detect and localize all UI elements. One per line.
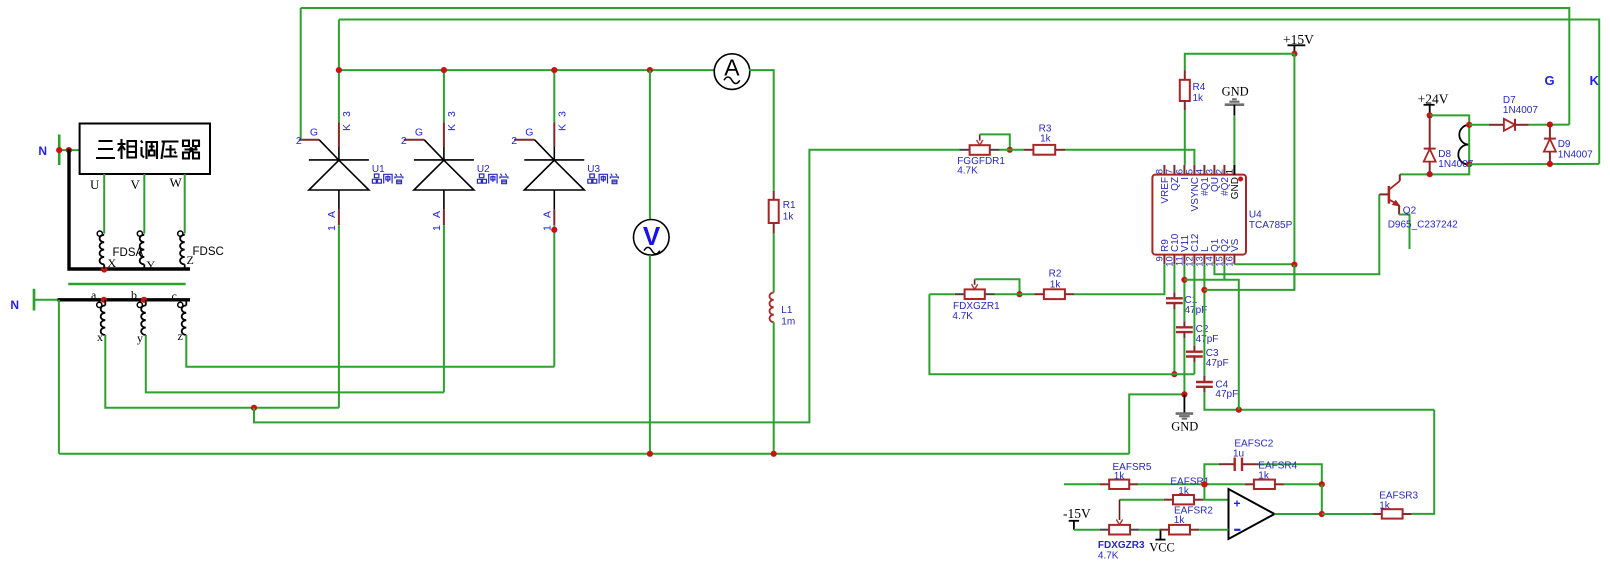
svg-text:1: 1 [1224,169,1235,174]
wire U4 pin 9 to R2 [1074,264,1164,294]
wire neutral bus up to GND junction [1129,394,1184,453]
wire GND to U4 pin 1 [1233,115,1235,164]
secondary winding c-z [178,302,183,307]
wire R1 to L1 [773,234,775,293]
potentiometer FDXGZR1 4.7K [955,293,965,295]
svg-text:U4: U4 [1249,210,1262,221]
wire V phase from box [143,174,145,234]
junction D8 anode [1427,171,1433,177]
transformer FDSA primary winding [97,231,102,236]
svg-text:U3: U3 [587,164,600,175]
svg-text:VCC: VCC [1149,541,1175,555]
thyristor U2 晶闸管 [443,70,445,122]
wire K return line [1469,163,1599,165]
wire transformer bottom to Q2 collector [1400,164,1469,174]
junction FDXGZR1 wiper [1016,291,1022,297]
junction D9 cathode [1547,122,1553,128]
wire +15V to R4 [1185,54,1295,70]
junction V meter tap [647,67,653,73]
wire loop FDXGZR1 to C1 C3 [929,294,1194,374]
wire bottom neutral bus [59,453,1129,455]
junction tap to FGGFDR1 [251,405,257,411]
svg-text:1k: 1k [1193,93,1205,104]
svg-text:U2: U2 [477,164,490,175]
U4 top pin 1 GND [1233,165,1235,175]
wire U4 pin 12 to C3 [1193,264,1195,345]
wire U4 pin 14 to Q2 base [1214,194,1379,274]
junction a winding [101,297,107,303]
U4 top pin 2 #Q2 [1223,165,1225,175]
svg-text:4.7K: 4.7K [952,311,973,322]
junction summing node overlay [1201,481,1207,487]
svg-text:R4: R4 [1193,82,1206,93]
svg-text:1N4007: 1N4007 [1558,149,1593,160]
wire feedback loop down to EAFSR3 [1412,410,1435,514]
svg-text:1k: 1k [1040,134,1052,145]
node N (secondary neutral terminal) [33,289,36,311]
junction X winding to bus [101,266,107,272]
svg-text:GND: GND [1171,420,1198,434]
transformer FDSB primary winding [137,231,142,236]
wire U phase from box [103,174,105,234]
svg-text:G: G [525,127,533,139]
voltmeter V [649,70,651,220]
svg-text:47pF: 47pF [1206,358,1229,369]
junction transformer bottom [1466,161,1472,167]
svg-text:K: K [556,124,568,131]
svg-text:3: 3 [341,111,353,117]
wire U4 pin 11 to C2 and GND [1183,264,1185,321]
svg-text:G: G [1545,73,1555,88]
svg-text:1k: 1k [1174,515,1186,526]
svg-text:1: 1 [326,225,338,231]
junction pin 11 node [1181,277,1187,283]
U4 bottom pin 10 C10 [1173,255,1175,265]
wire FDXGZR1 left [929,293,954,295]
svg-text:GND: GND [1230,177,1241,199]
wire EAFSR5 input [1064,483,1100,485]
U4 top pin 6 I [1183,165,1185,175]
junction EAFSR4 output [1319,481,1325,487]
svg-text:V: V [131,177,141,192]
svg-text:a: a [91,288,97,302]
svg-text:z: z [178,329,183,343]
wire FGGFDR1 to R3 [1000,149,1024,151]
wire G line from U1 gate to right side [301,8,1570,125]
svg-text:K: K [1590,73,1600,88]
junction N wire to black bus [66,147,72,153]
wire U4 pin 15 to node [1223,264,1225,280]
svg-text:47pF: 47pF [1215,389,1238,400]
svg-text:N: N [38,144,47,158]
U4 bottom pin 9 R9 [1163,255,1165,265]
svg-text:1k: 1k [1379,501,1391,512]
wire FGGFDR1 wiper loop [980,134,1010,149]
node N (primary neutral terminal) [58,135,61,166]
secondary winding b-y [137,302,142,307]
svg-text:TCA785P: TCA785P [1249,220,1293,231]
junction VS +15V [1291,262,1297,268]
svg-text:A: A [326,211,338,218]
svg-text:1k: 1k [1050,280,1062,291]
svg-text:FDSA: FDSA [113,247,144,259]
svg-text:Q2: Q2 [1403,206,1417,217]
resistor EAFSR2 1k [1160,529,1169,531]
transformer FDSC primary winding [178,231,183,236]
diode D7 1N4007 [1489,124,1504,126]
wire summing node to EAFSR4 [1204,483,1244,485]
svg-text:2: 2 [511,135,517,147]
svg-text:+: + [1234,497,1241,511]
wire EAFSR2 to op-amp - [1199,529,1228,531]
resistor R2 1k [1035,293,1044,295]
U4 top pin 3 QU [1213,165,1215,175]
svg-text:G: G [415,127,423,139]
transformer core bar [68,283,185,286]
wire +15V rail corner to pin 13 node [1204,265,1294,290]
junction pin 13 node [1201,287,1207,293]
U4 bottom pin 12 C12 [1193,255,1195,265]
svg-text:1N4007: 1N4007 [1503,105,1538,116]
svg-text:y: y [137,331,143,345]
svg-text:K: K [446,124,458,131]
U4 bottom pin 11 V11 [1183,255,1185,265]
potentiometer FDXGZR3 4.7K [1100,529,1109,531]
junction D9 anode [1547,161,1553,167]
resistor EAFSR3 1k [1373,513,1382,515]
U4 top pin 8 VREF [1163,165,1165,175]
wire +24V to transformer [1430,115,1470,124]
svg-text:A: A [431,211,443,218]
wire C4 bottom to output loop [1204,393,1434,410]
svg-text:Y: Y [147,258,156,272]
wire FDXGZR3 wiper to EAFSR1 [1120,499,1164,501]
wire EAFSR4 to output node [1284,483,1322,485]
wire +15V rail down to VS [1293,54,1295,290]
resistor R3 1k [1024,149,1034,151]
U4 bottom pin 13 L [1203,255,1205,265]
U4 bottom pin 16 VS [1233,255,1235,265]
U4 bottom pin 15 Q2 [1223,255,1225,265]
svg-text:4.7K: 4.7K [957,166,978,177]
three-phase regulator box 三相调压器 [80,124,210,175]
op-amp U? [1229,489,1275,539]
svg-text:1k: 1k [1114,471,1126,482]
wire U4 pin 10 to C1 [1173,264,1175,292]
wire winding y to thyristor U2 anode [146,335,444,392]
wire summing node to op-amp + [1203,484,1205,499]
junction U1 K [336,67,342,73]
capacitor C4 47pF [1203,376,1205,382]
wire output to EAFSR3 [1322,513,1373,515]
wire W phase from box [184,174,186,234]
ground GND bottom [1183,394,1185,412]
wire FDXGZR3 to EAFSR2 [1139,529,1160,531]
resistor R1 [773,191,775,200]
U4 top pin 5 VSYNC [1193,165,1195,175]
wire R3 to U4 pin 5 VSYNC [1065,150,1194,165]
junction L1 neutral [771,451,777,457]
black bus wire across winding tops a b c [58,298,191,301]
wire K line top to right side [339,20,1599,164]
junction voltmeter neutral [647,451,653,457]
wire C1 to loop node [1173,309,1175,374]
wire secondary neutral down to bottom bus [58,300,60,454]
svg-text:VS: VS [1230,238,1241,252]
wire winding x to thyristor U1 anode [105,335,339,408]
svg-text:A: A [541,211,553,218]
svg-text:1k: 1k [783,212,795,223]
svg-text:2: 2 [296,135,302,147]
svg-text:X: X [108,256,117,270]
thyristor U1 晶闸管 [338,70,340,122]
wire C2 to GND junction [1183,338,1185,394]
junction GND node [1181,391,1187,397]
junction U3 anode [551,227,557,233]
secondary winding a-x [97,302,102,307]
wire ammeter to R1 branch [749,70,774,191]
svg-text:x: x [97,330,103,344]
pin 1 marker dot U4 [1238,177,1243,182]
svg-text:U: U [90,177,100,192]
svg-text:R1: R1 [783,200,796,211]
U4 bottom pin 14 Q1 [1213,255,1215,265]
wire U4 pin 13 to C4 [1203,264,1205,376]
svg-text:-15V: -15V [1063,506,1091,521]
svg-text:1u: 1u [1233,449,1244,460]
inductor L1 [769,293,773,323]
svg-text:FDSC: FDSC [193,246,224,258]
svg-text:3: 3 [556,111,568,117]
wire L1 to neutral bus [773,322,775,454]
wire gate of U1 to G line [300,8,302,140]
svg-text:FDXGZR3: FDXGZR3 [1098,540,1145,551]
svg-text:4.7K: 4.7K [1098,551,1119,562]
op-amp ... IC U4 TCA785P [1152,175,1246,255]
wire EAFSR1 to op-amp + [1203,499,1229,501]
svg-text:D965_C237242: D965_C237242 [1388,220,1458,231]
diode D8 1N4007 [1429,115,1431,148]
svg-text:c: c [172,289,177,303]
resistor R4 1k [1184,70,1186,80]
svg-text:U1: U1 [372,164,385,175]
transistor Q2 D965_C237242 [1399,174,1401,181]
capacitor C1 47pF [1173,292,1175,298]
wire output node down [1321,484,1323,514]
wire pin 11 node to feedback junction [1184,280,1238,410]
wire C3 to loop wire [1193,362,1195,374]
wire R4 to U4 pin 6 [1184,110,1186,165]
junction b winding [141,297,147,303]
svg-text:Z: Z [187,253,194,267]
junction summing node [1201,481,1207,487]
capacitor C2 47pF [1183,321,1185,327]
svg-text:1N4007: 1N4007 [1438,159,1473,170]
black bus wire from N junction down and across winding bottoms X Y Z [69,149,190,269]
wire EAFSR5 to summing node [1138,483,1205,485]
svg-text:16: 16 [1224,256,1235,267]
wire tap to potentiometer FGGFDR1 [254,150,959,423]
U4 top pin 4 #Q1 [1203,165,1205,175]
wire cathode bus [339,69,714,71]
capacitor C3 47pF [1193,346,1195,352]
svg-text:K: K [341,124,353,131]
wire K vertical joining cathode bus [338,20,340,71]
wire FDXGZR1 wiper loop [975,279,1020,294]
resistor EAFSR4 1k [1245,483,1254,485]
svg-text:3: 3 [446,111,458,117]
wire N terminal to regulator box [59,149,79,151]
pulse transformer winding [1458,125,1469,165]
junction FGGFDR1 wiper [1007,147,1013,153]
wire op-amp output [1275,513,1322,515]
junction +15V [1291,51,1297,57]
U4 top pin 7 QZ [1173,165,1175,175]
svg-text:V: V [643,221,661,251]
wire winding z to thyristor U3 anode [186,335,554,367]
svg-text:L1: L1 [781,305,793,316]
junction C1 bottom [1171,371,1177,377]
wire Q2 emitter [1399,215,1409,250]
resistor EAFSR5 1k [1100,483,1109,485]
svg-text:G: G [310,127,318,139]
wire N terminal to secondary bus [34,299,59,301]
svg-text:2: 2 [401,135,407,147]
svg-text:1m: 1m [781,317,795,328]
thyristor U3 晶闸管 [553,70,555,122]
svg-text:b: b [131,288,137,302]
junction V11 feedback [1236,407,1242,413]
svg-text:N: N [10,298,19,312]
wire D7 to G line [1529,124,1570,126]
wire transformer top to D7 [1469,124,1489,126]
svg-text:1k: 1k [1258,471,1270,482]
junction on N terminal [56,147,62,153]
svg-text:1: 1 [431,225,443,231]
resistor EAFSR1 1k [1164,499,1173,501]
wire U4 pin 16 to +15V rail [1234,263,1294,265]
svg-text:47pF: 47pF [1196,334,1219,345]
wire -15V to FDXGZR3 [1074,529,1100,531]
junction U3 K [551,67,557,73]
diode D9 1N4007 [1549,125,1551,139]
junction +24V [1427,112,1433,118]
wire FDXGZR1 to R2 [995,293,1035,295]
potentiometer FGGFDR1 4.7K [959,149,969,151]
ammeter A [714,54,750,90]
svg-text:GND: GND [1222,85,1249,99]
junction U2 K [441,67,447,73]
svg-text:R2: R2 [1049,269,1062,280]
svg-text:1k: 1k [1178,486,1190,497]
junction transformer top [1466,122,1472,128]
junction op-amp output [1319,511,1325,517]
power VCC [1160,530,1162,540]
wire voltmeter to neutral bus [649,255,651,454]
svg-text:W: W [170,175,183,190]
capacitor EAFSC2 1u [1204,464,1219,484]
